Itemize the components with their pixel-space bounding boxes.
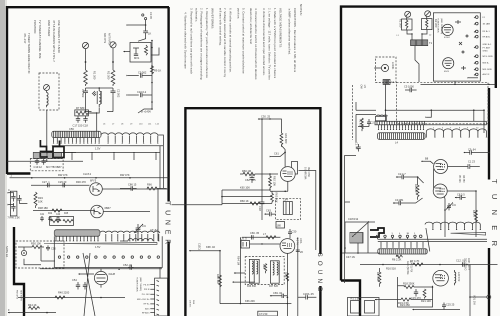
wire plate right to border (299, 171, 316, 251)
svg-text:R5 22K: R5 22K (458, 175, 460, 183)
svg-text:4TL-217: 4TL-217 (23, 33, 27, 44)
svg-text:PIX IF: PIX IF (144, 289, 151, 291)
component cluster (caps R C) (40, 213, 69, 221)
wire K60 (222, 186, 271, 191)
wire R61 to grid node (281, 146, 286, 154)
svg-text:C19 12: C19 12 (34, 165, 43, 169)
svg-text:RF B+: RF B+ (144, 304, 151, 306)
label R16 51K (386, 267, 396, 271)
svg-text:1. Made with a VTVM from point: 1. Made with a VTVM from point indicated… (273, 8, 277, 79)
wire B+ exit (138, 109, 152, 113)
svg-text:R7 680: R7 680 (76, 106, 85, 110)
transformer T5 (in dashed box) (283, 198, 292, 215)
terminal circles top right (142, 12, 153, 20)
svg-text:schematic.: schematic. (195, 8, 199, 22)
svg-text:R18 250K: R18 250K (403, 281, 415, 285)
node 1 rail (10, 172, 169, 178)
label tube types (46, 165, 62, 169)
svg-text:R30 47K: R30 47K (76, 180, 86, 184)
svg-text:7. Voltages associated with va: 7. Voltages associated with variable con… (223, 8, 227, 78)
svg-text:C30: C30 (292, 230, 297, 234)
wire trimmer net (120, 189, 158, 242)
svg-text:LOOK: LOOK (391, 62, 395, 69)
svg-text:C41: C41 (40, 214, 45, 216)
svg-text:C44: C44 (56, 214, 61, 216)
test circle TP2 (381, 62, 395, 72)
svg-text:C47 1N: C47 1N (346, 255, 355, 259)
B+ feed chain wire (151, 40, 153, 110)
svg-text:C54: C54 (72, 278, 77, 282)
svg-text:K66 56K: K66 56K (247, 285, 257, 288)
dashed vertical osc (352, 85, 354, 140)
resistor R63 56K (vertical) (271, 191, 279, 203)
wire between IF tubes (433, 169, 435, 189)
wire cluster to IF band (90, 112, 97, 131)
left panel border (7, 7, 169, 316)
arrow from TP2 to gutter (376, 67, 381, 69)
svg-text:C25 25: C25 25 (446, 303, 455, 307)
labels under transformers (247, 285, 279, 288)
wire balun to mixer cluster (90, 108, 99, 113)
svg-text:R40 2200: R40 2200 (58, 291, 70, 295)
svg-text:C65: C65 (262, 264, 266, 269)
wire V2R plate right (447, 190, 477, 237)
tuner pin circles column (474, 16, 478, 76)
tuner misc marks (455, 20, 468, 70)
capacitor C62 .005 (245, 174, 256, 183)
rail below shield (40, 268, 162, 270)
left tuner gutter line (broken by TUNER text) (167, 7, 169, 316)
labels L1 L2 (397, 35, 433, 38)
svg-text:4TT-8 IN CHASSIS WITH 4TPL-7: 4TT-8 IN CHASSIS WITH 4TPL-7 (52, 20, 56, 62)
wire loop AGC cluster (398, 277, 434, 307)
scanned page left edge shadow (0, 0, 7, 316)
svg-text:K66 20K: K66 20K (245, 299, 255, 303)
svg-text:C2 4.7: C2 4.7 (398, 172, 406, 176)
diagonal leader (426, 228, 430, 251)
wire K66 20K rail (220, 299, 291, 304)
capacitor C30 .25 feed wire (258, 115, 281, 133)
capacitor C1 (81, 88, 88, 98)
balun T1 (hatched) (411, 40, 433, 46)
svg-text:VOLTAGE MEASUREMENTS:: VOLTAGE MEASUREMENTS: (279, 8, 283, 48)
svg-text:B CHROMA: B CHROMA (304, 167, 307, 180)
svg-text:C69 .02: C69 .02 (273, 291, 283, 295)
tuner shield bold outline (40, 140, 64, 158)
tube V3 (sound IF) (280, 167, 295, 182)
svg-text:1K: 1K (148, 32, 151, 36)
wire C66 rail (242, 231, 280, 240)
pin number labels (socket row) (377, 233, 417, 235)
svg-text:R62 10K: R62 10K (273, 176, 277, 186)
tube socket pin circles row (58, 256, 159, 258)
resistor R1 300 (84, 70, 97, 86)
tube V1R (1st IF) (434, 160, 448, 174)
right tuner gutter line (broken by TUNER text) (488, 88, 490, 316)
svg-text:TUNER: TUNER (490, 179, 499, 256)
tuner unit box (433, 13, 480, 81)
wire T1 down (415, 46, 419, 82)
svg-text:R44 1K: R44 1K (28, 303, 37, 307)
tube V4 cathode vertical (287, 253, 289, 316)
svg-text:6FY/7B 6BZ7: 6FY/7B 6BZ7 (46, 165, 62, 169)
wire y299.5 w R23 (375, 298, 433, 307)
wire C3 381 (393, 198, 423, 205)
mixer module M1 box (130, 43, 151, 63)
svg-text:C1 .47: C1 .47 (355, 142, 359, 150)
wire audio in w arrow (189, 243, 220, 251)
dashed box (quad detector) (245, 257, 284, 285)
transformer T3 (249, 259, 259, 283)
svg-text:GATE) PIX: GATE) PIX (410, 261, 413, 273)
resistor R7 4.7K inline (410, 259, 423, 266)
tube V3R (video amp) (433, 270, 449, 286)
middle panel (sound) border (185, 108, 320, 316)
capacitor C10 to ground (128, 90, 152, 97)
wire arrow at left border y282 (233, 281, 256, 283)
svg-text:1.5V: 1.5V (95, 245, 101, 249)
svg-text:VOL 1M: VOL 1M (473, 295, 477, 304)
svg-text:C50: C50 (51, 247, 56, 251)
labels bottom-left column (16, 290, 22, 302)
connector pin stubs (150, 285, 154, 313)
tube V4 (audio output) (280, 239, 295, 254)
IF input assembly T2 (hatched box) (52, 127, 101, 137)
screw terminal J2 (VHF ant) (110, 42, 116, 48)
coil row upper (osc) (425, 222, 480, 229)
svg-text:TUNER: TUNER (164, 201, 171, 249)
svg-text:C18: C18 (83, 124, 88, 128)
svg-text:TV TUNER AT CHANNEL PRE: TV TUNER AT CHANNEL PRE (38, 20, 42, 59)
svg-text:RF AGC: RF AGC (483, 35, 491, 38)
svg-text:L8 UH: L8 UH (150, 228, 157, 232)
svg-text:C56: C56 (69, 127, 74, 131)
svg-text:L20 472: L20 472 (457, 272, 461, 282)
svg-text:C63: C63 (266, 209, 271, 213)
verticals near osc (344, 222, 368, 254)
connector pin labels (137, 284, 150, 314)
svg-text:C86 15: C86 15 (128, 182, 137, 186)
filter block L4 (33, 153, 45, 159)
svg-text:AGC IF: AGC IF (483, 73, 491, 76)
svg-text:C64: C64 (283, 198, 288, 202)
grid network C67 (241, 237, 250, 249)
svg-text:C3 381: C3 381 (395, 198, 404, 202)
svg-text:R63 56K: R63 56K (275, 193, 279, 203)
svg-text:C18: C18 (258, 206, 262, 211)
svg-text:R38 180: R38 180 (38, 206, 48, 210)
balun coil L1 (97, 88, 101, 108)
capacitor C12 .01 inline (456, 258, 466, 266)
capacitor C1 23 (plate out) (448, 160, 480, 169)
resistor block R1 (399, 17, 413, 30)
svg-text:300 OHM: 300 OHM (103, 33, 106, 43)
resistor R61 680 (vertical) (280, 133, 288, 147)
junction and long vertical x220 (219, 250, 221, 304)
resistor R1A vertical (osc section) (359, 118, 364, 131)
wire Q2 to border (103, 211, 150, 213)
svg-text:K60 10K: K60 10K (240, 186, 250, 190)
resistor pack board (50, 217, 74, 226)
svg-text:C6 .5: C6 .5 (241, 237, 248, 241)
svg-text:R6 2.2K: R6 2.2K (392, 258, 402, 262)
svg-text:6CW4: 6CW4 (444, 37, 450, 39)
svg-text:R1 1.5K: R1 1.5K (351, 297, 361, 301)
bottom module box (sound det) (258, 311, 278, 316)
svg-text:R2 300: R2 300 (107, 71, 111, 80)
capacitor C55 (83, 282, 87, 290)
cathode wire V3 (270, 181, 288, 192)
bottom module box (4.5MC) (348, 297, 380, 316)
svg-text:B8: B8 (425, 157, 429, 161)
capacitor C15 470 (411, 289, 421, 300)
svg-text:1.5V: 1.5V (95, 146, 101, 150)
coil L3 hatched (383, 80, 394, 85)
svg-text:R33: R33 (38, 196, 43, 200)
label RW 1.5K (7, 215, 20, 219)
border pin circle (469, 295, 491, 299)
coil row right-end wire (158, 135, 164, 146)
mixer grid coil box (hatched) (378, 133, 426, 145)
svg-text:AGC: AGC (145, 308, 150, 311)
mixer coil L5 (hatched band) (378, 249, 427, 258)
resistor R60 1M (grid return) (240, 169, 278, 176)
pin number labels (right panel bumps) (433, 128, 479, 130)
svg-text:MIX B+: MIX B+ (483, 63, 491, 65)
wire under tuner box (421, 81, 496, 85)
svg-text:C52,.02: C52,.02 (123, 263, 133, 267)
screw terminal J3 (UHF) (44, 85, 50, 91)
svg-text:4. Channel selector switch on: 4. Channel selector switch on Channel wh… (254, 8, 258, 80)
coil L8 near border (128, 228, 157, 241)
svg-text:MIX GRID: MIX GRID (483, 69, 493, 71)
svg-text:RW 4700: RW 4700 (16, 290, 18, 300)
svg-text:R61 680: R61 680 (284, 134, 288, 144)
wire Q1 collector to border (102, 146, 168, 189)
double rail (378, 239, 487, 241)
capacitor C50 (46, 245, 56, 250)
label AGC vertical (406, 261, 413, 275)
transistor Q2 (2nd IF) (91, 205, 112, 218)
svg-text:C1 23: C1 23 (468, 160, 475, 164)
label SOUND (middle gutter) (316, 253, 323, 296)
screw terminal J1 (VHF ant) (82, 42, 88, 48)
capacitor C52 in bottom edge (123, 263, 134, 270)
label B CHROMA REF (304, 167, 310, 180)
resistor R50 (30, 242, 44, 249)
wire grid to tube V4 (250, 243, 281, 244)
svg-text:R4 380: R4 380 (462, 175, 464, 183)
label C4A (360, 85, 366, 90)
svg-text:SEE NOTE: SEE NOTE (20, 290, 22, 302)
bottom wire w C25 (413, 303, 461, 310)
svg-text:R16 51K: R16 51K (386, 267, 396, 271)
capacitor C8 5.5 w arrow (455, 192, 466, 199)
svg-text:R9 1K: R9 1K (154, 69, 161, 73)
svg-text:4. Waveforms obtained with Syn: 4. Waveforms obtained with Synchroscope (184, 12, 188, 69)
wire near border with cap C86 (120, 182, 137, 190)
capacitor C19 (34, 158, 43, 168)
svg-text:R1 300: R1 300 (399, 19, 403, 28)
label TUNER (left gutter) (164, 201, 171, 249)
coil hatched small (osc) (350, 233, 363, 244)
svg-text:K68 .02: K68 .02 (206, 245, 215, 249)
svg-text:3RD VIDEO: 3RD VIDEO (464, 258, 466, 271)
capacitor C17 (73, 116, 83, 128)
dashed box (ratio detector upper) (276, 199, 301, 220)
rail y161 left panel (7, 161, 83, 162)
coil row (IF output) (100, 231, 160, 233)
wire C2 4.7 (396, 172, 424, 183)
svg-text:NOTES:: NOTES: (299, 4, 303, 16)
label B+140V (141, 110, 151, 114)
wire terminal chain (128, 20, 146, 26)
svg-text:100A: 100A (299, 238, 302, 244)
svg-text:C: C (8, 188, 10, 192)
svg-text:RW 47K: RW 47K (120, 173, 130, 177)
svg-text:REF OSC: REF OSC (307, 167, 309, 178)
label 300 OHM ANT INPUT (103, 33, 111, 46)
svg-text:3. Reported to null conditions: 3. Reported to null conditions are given… (190, 8, 194, 74)
resistor R44 bottom (28, 303, 40, 310)
label tuner conn vertical (437, 18, 444, 34)
svg-text:C2 562: C2 562 (117, 89, 121, 98)
svg-text:R42: R42 (48, 213, 53, 215)
svg-text:RF B+1: RF B+1 (483, 31, 491, 33)
dashed test box left (376, 57, 397, 83)
vertical link x222 (221, 190, 223, 203)
capacitor C5 1000 (404, 85, 417, 93)
svg-text:POSITION: POSITION (33, 20, 37, 33)
cap C1 .47 vertical (355, 142, 361, 152)
socket pins row with circles (376, 235, 416, 239)
wire from J1 down (85, 49, 87, 70)
wire shield to connector (159, 268, 161, 279)
tube V2R (2nd IF) (433, 184, 447, 198)
arrows to left border (9, 193, 14, 205)
svg-text:(SEE TUNER): (SEE TUNER) (139, 277, 141, 291)
label R5 22K R4 380 (458, 175, 464, 183)
svg-text:C5 1000: C5 1000 (404, 85, 414, 89)
svg-text:180: 180 (277, 224, 282, 228)
transistor Q1 (1st IF) (90, 179, 103, 196)
screw terminal J4 (405, 11, 411, 17)
svg-text:CH 8.2: CH 8.2 (83, 172, 92, 176)
wire y253 (342, 253, 380, 259)
resistor R6 2.2K (392, 255, 403, 262)
arrow into module M1 (124, 51, 131, 53)
svg-text:C9 .64: C9 .64 (468, 147, 476, 151)
hook arrow mid bus (427, 110, 432, 117)
wire F bottom (8, 308, 56, 313)
label 3RD VIDEO (464, 258, 471, 271)
bold shield bracket (370, 228, 384, 237)
resistor R7 680 (75, 106, 90, 116)
grid arrow (sound takeoff) (271, 152, 285, 157)
tube V2 (osc) in tuner (443, 58, 454, 73)
svg-text:GND B+1: GND B+1 (483, 44, 493, 46)
capacitor C2A (358, 119, 374, 127)
bottom left tiny labels (189, 300, 195, 307)
small coil block left (376, 115, 388, 121)
svg-text:C17 150: C17 150 (73, 124, 83, 128)
long pointer sliver (44, 243, 157, 249)
capacitor C69 w arrow (270, 291, 287, 298)
capacitor C63 w arrow (265, 209, 276, 217)
label TUNER (right gutter) (490, 179, 499, 256)
svg-text:WAVEFORMS:: WAVEFORMS: (211, 8, 215, 29)
verticals from bus (474, 110, 484, 133)
svg-text:LIN 5%: LIN 5% (189, 300, 191, 307)
capacitor C9 to ground (128, 71, 152, 78)
svg-text:TUNER CONN: TUNER CONN (437, 18, 439, 33)
svg-text:C66 .05: C66 .05 (250, 231, 260, 235)
svg-text:C8 5.5: C8 5.5 (457, 192, 465, 196)
label V4 (296, 238, 303, 245)
svg-text:C30 .25: C30 .25 (261, 115, 271, 119)
components left of tuner box: wire y222 (345, 217, 375, 237)
svg-text:C9 562: C9 562 (138, 71, 147, 75)
svg-text:AGC (NOISE: AGC (NOISE (406, 261, 409, 275)
UHF antenna dashed enclosure (39, 73, 59, 110)
svg-text:R66: R66 (147, 182, 152, 186)
svg-text:3-9: 3-9 (142, 224, 146, 228)
svg-text:6FY5: 6FY5 (90, 179, 97, 183)
svg-text:PT. ANT: PT. ANT (483, 46, 491, 49)
label NOTE col (5, 246, 9, 257)
tuner connector box (155, 278, 168, 316)
svg-text:CAPACITORS - Decimal values in: CAPACITORS - Decimal values in MF, all o… (293, 8, 297, 73)
svg-text:5. Contrast control at maximum: 5. Contrast control at maximum countercl… (242, 8, 246, 74)
rail 2 with caps (31, 180, 90, 187)
arrow into T3 (234, 272, 245, 274)
svg-text:AND TUNER: AND TUNER (47, 20, 51, 36)
svg-text:PLL 16V: PLL 16V (142, 294, 151, 296)
svg-text:C3 45: C3 45 (149, 12, 153, 19)
resistor R18 250K (403, 281, 415, 288)
tube V1 (RF amp) in tuner (442, 24, 453, 39)
svg-text:R3 180: R3 180 (414, 184, 418, 193)
label TUNER CONN (136, 277, 142, 292)
svg-text:2. Line voltage - 117 volts, t: 2. Line voltage - 117 volts, tuner Selec… (268, 8, 272, 80)
svg-text:C29 20: C29 20 (58, 180, 67, 184)
svg-text:C10 6-2: C10 6-2 (137, 90, 147, 94)
vertical x470 and VOL (470, 265, 477, 316)
capacitor C31 (8, 188, 16, 202)
right panel border (341, 7, 496, 316)
arrow into V1R grid (421, 157, 433, 164)
svg-text:TUNER CONN: TUNER CONN (136, 277, 138, 292)
svg-text:RF AGC: RF AGC (142, 311, 150, 314)
resistor R62 10K (vertical) (269, 174, 277, 190)
capacitor C2 (111, 88, 121, 98)
svg-text:R68 360: R68 360 (216, 274, 220, 284)
svg-text:dead rotor; all detector test: dead rotor; all detector test (249, 8, 253, 44)
svg-text:C62 .005: C62 .005 (245, 178, 256, 182)
resistor R3 180 vertical (414, 177, 419, 200)
capacitor C18 vertical branch (258, 118, 265, 220)
arrows under IF output (56, 234, 159, 240)
ground symbol (balun) (92, 91, 96, 96)
resistor R66 to border (147, 182, 167, 190)
svg-text:R60 1K: R60 1K (240, 199, 249, 203)
capacitor C33 (17, 195, 27, 204)
svg-text:in MMF unless otherwise specif: in MMF unless otherwise specified. (288, 8, 292, 55)
svg-text:C4A: C4A (360, 85, 363, 90)
arrow rail mid (79, 273, 95, 275)
svg-text:(SEE CHASSIS): (SEE CHASSIS) (440, 18, 443, 34)
capacitor C54 (72, 278, 80, 290)
